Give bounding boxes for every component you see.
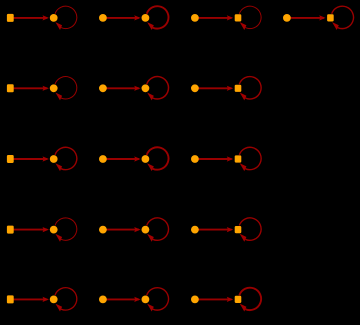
arrowhead self-loop r3c3 <box>240 163 247 171</box>
self-loop r5c2 <box>147 288 169 310</box>
arrowhead self-loop r4c3 <box>240 234 247 242</box>
node right r1c3 <box>235 14 242 21</box>
node right r1c4 <box>327 14 334 21</box>
self-loop r5c1 <box>55 288 77 310</box>
arrowhead edge r4c1 <box>43 227 49 232</box>
arrowhead self-loop r2c2 <box>147 93 154 101</box>
cell r2c3: state diagram <box>191 77 261 101</box>
self-loop r3c1 <box>55 147 77 169</box>
wire edge r3c3 <box>198 158 232 160</box>
self-loop r1c3 <box>239 6 261 28</box>
node left r1c4 <box>283 14 291 22</box>
arrowhead edge r3c1 <box>43 156 49 161</box>
node left r1c2 <box>99 14 107 22</box>
self-loop r4c2 <box>147 218 169 240</box>
wire edge r2c2 <box>106 87 139 89</box>
wire edge r5c3 <box>198 298 232 300</box>
node left r2c1 <box>7 84 14 92</box>
arrowhead edge r3c2 <box>134 156 140 161</box>
node left r1c3 <box>191 14 199 22</box>
self-loop r3c3 <box>239 147 261 169</box>
arrowhead self-loop r5c3 <box>240 304 247 312</box>
arrowhead edge r5c1 <box>43 297 49 302</box>
node right r3c2 <box>142 155 150 163</box>
node left r5c1 <box>7 295 14 303</box>
arrowhead self-loop r1c1 <box>55 22 62 30</box>
arrowhead self-loop r1c2 <box>147 22 154 30</box>
cell r1c3: state diagram <box>191 6 261 30</box>
wire edge r1c3 <box>198 17 232 19</box>
node right r5c2 <box>142 296 150 304</box>
cell r4c3: state diagram <box>191 218 261 242</box>
self-loop r4c1 <box>55 218 77 240</box>
node left r2c3 <box>191 84 199 92</box>
arrowhead self-loop r5c2 <box>147 304 154 312</box>
arrowhead edge r1c4 <box>319 15 325 20</box>
cell r1c4: state diagram <box>283 6 354 30</box>
wire edge r5c2 <box>106 298 139 300</box>
node left r4c3 <box>191 226 199 234</box>
node right r2c2 <box>142 84 150 92</box>
wire edge r2c1 <box>13 87 47 89</box>
node left r5c2 <box>99 296 107 304</box>
node right r3c3 <box>235 155 242 162</box>
node right r1c1 <box>50 14 58 22</box>
node left r2c2 <box>99 84 107 92</box>
arrowhead edge r3c3 <box>227 156 233 161</box>
self-loop r3c2 <box>147 147 169 169</box>
node left r3c2 <box>99 155 107 163</box>
cell r4c1: state diagram <box>7 218 77 242</box>
node left r3c1 <box>7 155 14 163</box>
wire edge r2c3 <box>198 87 232 89</box>
arrowhead self-loop r4c2 <box>147 234 154 242</box>
arrowhead edge r4c2 <box>134 227 140 232</box>
node right r4c1 <box>50 226 58 234</box>
wire edge r1c2 <box>106 17 139 19</box>
arrowhead edge r2c1 <box>43 86 49 91</box>
self-loop r1c4 <box>332 6 354 28</box>
self-loop r2c1 <box>55 77 77 99</box>
arrowhead self-loop r2c3 <box>240 93 247 101</box>
arrowhead self-loop r1c3 <box>240 22 247 30</box>
cell r5c3: state diagram <box>191 288 261 312</box>
wire edge r5c1 <box>13 298 47 300</box>
arrowhead edge r4c3 <box>227 227 233 232</box>
cell r2c2: state diagram <box>99 77 169 101</box>
node right r2c3 <box>235 85 242 92</box>
self-loop r4c3 <box>239 218 261 240</box>
arrowhead edge r5c2 <box>134 297 140 302</box>
cell r3c2: state diagram <box>99 147 169 171</box>
wire edge r1c4 <box>290 17 324 19</box>
self-loop r5c3 <box>239 288 261 310</box>
cell r1c2: state diagram <box>99 6 169 30</box>
arrowhead self-loop r1c4 <box>332 22 339 30</box>
wire edge r4c2 <box>106 229 139 231</box>
wire edge r3c2 <box>106 158 139 160</box>
cell r2c1: state diagram <box>7 77 77 101</box>
arrowhead self-loop r4c1 <box>55 234 62 242</box>
node right r2c1 <box>50 84 58 92</box>
node right r5c3 <box>235 296 242 303</box>
node right r4c3 <box>235 226 242 233</box>
arrowhead edge r2c3 <box>227 86 233 91</box>
arrowhead edge r1c3 <box>227 15 233 20</box>
wire edge r1c1 <box>13 17 47 19</box>
node right r1c2 <box>142 14 150 22</box>
node left r5c3 <box>191 296 199 304</box>
node right r4c2 <box>142 226 150 234</box>
node left r4c1 <box>7 226 14 234</box>
arrowhead edge r5c3 <box>227 297 233 302</box>
cell r5c2: state diagram <box>99 288 169 312</box>
self-loop r2c2 <box>147 77 169 99</box>
cell r1c1: state diagram <box>7 6 77 30</box>
node left r1c1 <box>7 14 14 22</box>
arrowhead self-loop r2c1 <box>55 93 62 101</box>
node left r3c3 <box>191 155 199 163</box>
self-loop r1c1 <box>55 6 77 28</box>
self-loop r2c3 <box>239 77 261 99</box>
cell r3c1: state diagram <box>7 147 77 171</box>
node left r4c2 <box>99 226 107 234</box>
arrowhead edge r2c2 <box>134 86 140 91</box>
arrowhead self-loop r5c1 <box>55 304 62 312</box>
node right r3c1 <box>50 155 58 163</box>
arrowhead edge r1c2 <box>134 15 140 20</box>
cell r5c1: state diagram <box>7 288 77 312</box>
cell r4c2: state diagram <box>99 218 169 242</box>
arrowhead self-loop r3c1 <box>55 163 62 171</box>
wire edge r3c1 <box>13 158 47 160</box>
wire edge r4c1 <box>13 229 47 231</box>
cell r3c3: state diagram <box>191 147 261 171</box>
wire edge r4c3 <box>198 229 232 231</box>
node right r5c1 <box>50 296 58 304</box>
arrowhead self-loop r3c2 <box>147 163 154 171</box>
self-loop r1c2 <box>147 6 169 28</box>
arrowhead edge r1c1 <box>43 15 49 20</box>
